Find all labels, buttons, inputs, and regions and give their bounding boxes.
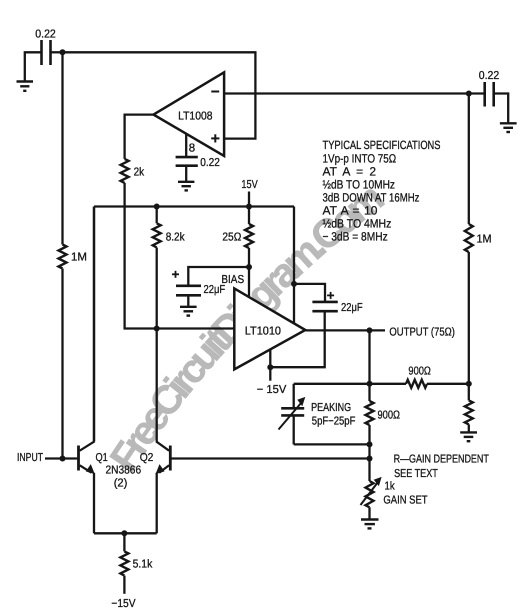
transistor Q1: [79, 441, 95, 472]
ground under 1k: [361, 520, 379, 529]
wire bus right corner down to U2 V+: [293, 207, 295, 324]
junction U2 V- node: [267, 364, 273, 370]
svg-text:0.22: 0.22: [35, 29, 56, 41]
wire INPUT lead: [45, 457, 77, 459]
wire right column down: [468, 94, 470, 225]
wire -15V stub: [269, 367, 271, 381]
svg-text:INPUT: INPUT: [17, 452, 43, 464]
svg-text:3dB DOWN AT 16MHz: 3dB DOWN AT 16MHz: [323, 191, 420, 205]
wire BIAS run: [188, 267, 249, 286]
svg-text:PEAKING: PEAKING: [311, 402, 351, 414]
junction 25ohm to 15V bus: [246, 204, 252, 210]
watermark: [131, 208, 380, 474]
wire peaking loop top / 900 ohm feed: [294, 383, 406, 385]
capacitor C6 peaking variable: [281, 408, 304, 415]
wire V+ node to C5: [294, 284, 325, 302]
svg-text:− 3dB = 8MHz: − 3dB = 8MHz: [323, 230, 388, 244]
svg-text:900Ω: 900Ω: [378, 410, 401, 422]
svg-text:2k: 2k: [134, 167, 145, 179]
svg-text:22μF: 22μF: [204, 284, 226, 296]
junction peaking bottom node: [367, 441, 373, 447]
svg-text:TYPICAL SPECIFICATIONS: TYPICAL SPECIFICATIONS: [323, 138, 441, 152]
svg-text:SEE TEXT: SEE TEXT: [394, 468, 438, 480]
capacitor C4 22uF bias: [176, 286, 201, 296]
svg-text:900Ω: 900Ω: [408, 365, 431, 377]
wire 2k down to LT1010 input node: [125, 183, 235, 329]
emitter arrow Q2: [156, 464, 165, 474]
svg-text:− 15V: − 15V: [257, 384, 287, 396]
svg-text:R—GAIN DEPENDENT: R—GAIN DEPENDENT: [394, 454, 489, 466]
arrow head 1k rheostat: [374, 477, 382, 486]
wire U1 output to 2k: [125, 115, 154, 159]
svg-text:0.22: 0.22: [200, 157, 220, 169]
junction 900ohm feed node: [367, 381, 373, 387]
junction gain set node: [367, 456, 373, 462]
svg-text:OUTPUT (75Ω): OUTPUT (75Ω): [389, 326, 455, 338]
wire 15V bus: [94, 205, 294, 207]
svg-text:5pF−25pF: 5pF−25pF: [312, 415, 356, 427]
junction input node: [60, 456, 66, 462]
wire down to 5.1k: [123, 533, 125, 551]
svg-text:1M: 1M: [71, 252, 87, 264]
capacitor C1 0.22 top-left: plates: [42, 40, 51, 65]
resistor R10 output load: [465, 400, 473, 424]
junction LT1010 input node: [154, 326, 160, 332]
junction node B top-right cap: [466, 91, 472, 97]
svg-text:0.22: 0.22: [479, 70, 499, 82]
ground under R10: [460, 432, 477, 441]
svg-text:LT1010: LT1010: [245, 326, 281, 338]
svg-text:AT A = 2: AT A = 2: [323, 164, 377, 178]
capacitor C2 0.22 pin8: [176, 157, 198, 166]
junction right load node: [466, 381, 472, 387]
svg-text:½dB TO 10MHz: ½dB TO 10MHz: [323, 177, 396, 191]
op-amp U1 LT1008: [154, 72, 225, 156]
svg-text:15V: 15V: [241, 179, 258, 191]
resistor R9 1M right: [465, 224, 473, 252]
svg-text:(2): (2): [114, 477, 128, 489]
svg-text:8: 8: [189, 142, 195, 154]
svg-text:Q2: Q2: [140, 452, 154, 464]
wire U2 V- pin stub: [269, 350, 271, 368]
ground under C3: [500, 123, 517, 132]
resistor R3 8.2k: [153, 223, 161, 247]
resistor R2 2k: [121, 159, 129, 183]
svg-text:25Ω: 25Ω: [222, 231, 241, 243]
wire V- node run to C5 bottom: [270, 311, 324, 367]
capacitor C3 0.22 top right: [485, 82, 494, 107]
arrow head peaking cap: [297, 397, 305, 406]
svg-text:5.1k: 5.1k: [133, 559, 153, 571]
wire C1 right lead to node A: [51, 51, 63, 53]
resistor R4 25ohm: [245, 224, 253, 248]
svg-text:LT1008: LT1008: [178, 111, 212, 123]
wire Q2 collector up to node: [156, 329, 158, 442]
svg-text:Q1: Q1: [96, 452, 108, 464]
wire inverting input run: [224, 92, 469, 94]
svg-text:1Vp-p INTO 75Ω: 1Vp-p INTO 75Ω: [323, 151, 397, 165]
wire Q2 base run to gain node: [170, 457, 369, 459]
wire node A down to 1M: [61, 52, 63, 244]
wire emitters join: [94, 532, 157, 534]
svg-text:8.2k: 8.2k: [166, 231, 185, 243]
wire bus left corner down to Q1 collector: [93, 207, 95, 442]
wire C1 left lead: [25, 52, 42, 80]
junction 8.2k to 15V bus: [154, 204, 160, 210]
resistor R1 1M left: [59, 245, 67, 269]
svg-text:1M: 1M: [477, 234, 492, 246]
emitter arrow Q1: [86, 464, 95, 474]
svg-text:−15V: −15V: [111, 598, 135, 610]
wire output node down: [368, 330, 370, 401]
wire top feedback run to U1 + input: [63, 52, 256, 138]
transistor Q2: [156, 441, 170, 472]
wire U2 output: [305, 329, 385, 331]
svg-text:GAIN SET: GAIN SET: [383, 494, 427, 506]
capacitor C5 22uF out: [312, 302, 337, 311]
pin 8 stub U1: [185, 134, 187, 157]
junction BIAS node: [246, 264, 252, 270]
resistor R5 900ohm horizontal: [406, 380, 427, 388]
wire peaking loop bottom: [294, 443, 370, 445]
specifications text block: [323, 138, 441, 244]
resistor R8 1k gain set: [366, 481, 374, 507]
junction OUTPUT node: [367, 327, 373, 333]
wire R1 down to input node: [61, 269, 63, 459]
wire Q2 emitter down: [156, 473, 158, 534]
buffer U2 LT1010: [234, 288, 305, 369]
svg-text:1k: 1k: [385, 481, 395, 493]
15V supply stub: [248, 192, 250, 207]
junction U2 V+ node: [291, 281, 297, 287]
resistor R6 900ohm vertical: [366, 401, 374, 425]
ground under C2: [178, 182, 194, 191]
ground under C1: [17, 82, 34, 91]
svg-text:AT A = 10: AT A = 10: [323, 204, 378, 218]
peaking loop left branch: [293, 384, 295, 409]
ground under C4: [180, 307, 197, 316]
resistor R7 5.1k: [120, 551, 128, 575]
svg-text:2N3866: 2N3866: [106, 465, 142, 477]
wire Q1 collector up: [93, 207, 95, 442]
wire Q1 emitter down: [93, 473, 95, 534]
junction node A top-left cap: [60, 49, 66, 55]
junction emitter tail node: [121, 530, 127, 536]
svg-text:22μF: 22μF: [341, 302, 363, 314]
